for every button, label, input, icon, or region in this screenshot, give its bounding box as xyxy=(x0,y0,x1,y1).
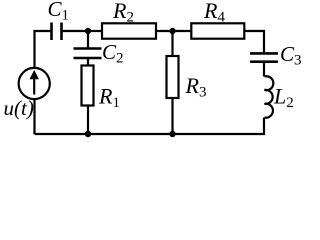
node D junction dot xyxy=(169,131,175,137)
resistor R4 xyxy=(191,23,244,38)
svg-text:C1: C1 xyxy=(48,0,70,24)
capacitor C1 xyxy=(52,23,62,41)
wire C2 to R1 xyxy=(87,59,89,66)
wire R4 to top-right corner down to C3 xyxy=(244,31,264,52)
resistor R2 xyxy=(102,23,156,38)
wire L2 to bottom-right corner xyxy=(173,118,265,135)
node C junction dot xyxy=(85,131,91,137)
resistor R1 xyxy=(82,66,94,106)
svg-text:R4: R4 xyxy=(203,0,225,26)
source u(t) circle xyxy=(19,68,50,99)
wire R2 to node B xyxy=(156,30,173,32)
wire R1 to bottom node C xyxy=(87,106,89,135)
resistor R3 xyxy=(167,56,179,98)
svg-text:C2: C2 xyxy=(102,40,124,67)
wire node A down to C2 xyxy=(87,31,89,48)
inductor L2 xyxy=(265,76,274,117)
svg-text:R1: R1 xyxy=(98,84,120,112)
wire R3 to bottom node D xyxy=(171,98,173,134)
svg-text:L2: L2 xyxy=(273,84,294,112)
wire top-left segment xyxy=(35,31,51,69)
source arrow xyxy=(30,70,39,95)
wire C1 to node A xyxy=(63,30,89,32)
wire bottom-left up to source xyxy=(33,100,35,134)
svg-text:u(t): u(t) xyxy=(4,96,34,120)
svg-text:R3: R3 xyxy=(185,73,207,101)
wire node B down to R3 xyxy=(171,31,173,56)
wire node B to R4 xyxy=(173,30,192,32)
wire C3 to L2 xyxy=(263,63,265,77)
capacitor C2 xyxy=(74,49,102,59)
node B junction dot xyxy=(169,28,175,34)
bottom wire xyxy=(35,133,173,135)
svg-text:R2: R2 xyxy=(112,0,134,26)
node A junction dot xyxy=(85,28,91,34)
capacitor C3 xyxy=(250,53,278,61)
svg-text:C3: C3 xyxy=(280,42,302,69)
wire node A to R2 xyxy=(88,30,102,32)
